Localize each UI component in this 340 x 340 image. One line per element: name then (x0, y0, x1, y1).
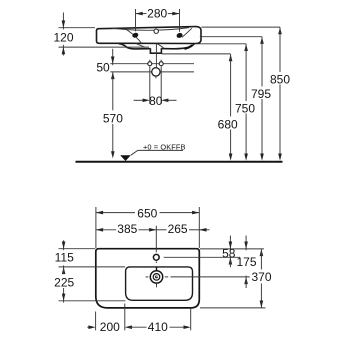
svg-text:120: 120 (53, 30, 73, 44)
svg-text:410: 410 (148, 320, 168, 334)
svg-text:280: 280 (147, 7, 167, 21)
svg-text:50: 50 (96, 60, 110, 74)
svg-text:58: 58 (222, 247, 236, 261)
svg-text:80: 80 (149, 94, 163, 108)
svg-text:795: 795 (251, 87, 271, 101)
svg-text:175: 175 (236, 255, 256, 269)
svg-text:680: 680 (218, 117, 238, 131)
svg-text:225: 225 (54, 276, 74, 290)
svg-text:385: 385 (117, 222, 137, 236)
svg-text:+0 = OKFFB: +0 = OKFFB (143, 143, 186, 152)
svg-text:750: 750 (235, 101, 255, 115)
svg-text:200: 200 (100, 320, 120, 334)
svg-text:115: 115 (55, 251, 74, 265)
svg-text:570: 570 (103, 111, 123, 125)
svg-text:650: 650 (137, 207, 157, 221)
svg-text:850: 850 (270, 73, 290, 87)
svg-text:265: 265 (168, 222, 188, 236)
svg-text:370: 370 (251, 270, 271, 284)
